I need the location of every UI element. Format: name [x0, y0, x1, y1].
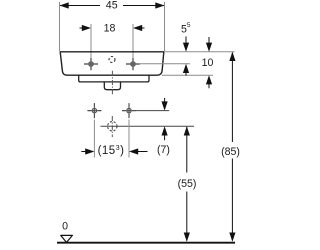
drain fitting under basin	[104, 82, 120, 90]
dimension (7) lower arrow	[162, 126, 168, 140]
dimension (55) bottom arrow	[184, 233, 190, 242]
tap hole right	[126, 58, 140, 70]
dimension 45 line	[60, 5, 165, 7]
dimension (15/3) left arrow	[81, 148, 94, 154]
svg-text:10: 10	[202, 57, 214, 69]
extension line left of 45	[59, 2, 61, 51]
reference line tap level extended right	[139, 63, 190, 65]
dimension (7) upper arrow	[162, 98, 168, 111]
dimension 10 lower arrow	[206, 75, 212, 88]
dimension 18 right arrow	[133, 25, 145, 31]
extension line right fixing hole down	[128, 120, 130, 158]
dimension 45 right arrow	[155, 2, 164, 8]
washbasin apron (lower tier)	[79, 75, 149, 82]
dimension 10 upper arrow	[206, 37, 212, 52]
dimension (85) bottom arrow	[229, 233, 235, 242]
dimension 45 left arrow	[60, 2, 69, 8]
dimension (55) top arrow	[184, 126, 190, 135]
drain hole (dashed circle)	[108, 122, 117, 131]
floor line	[57, 242, 235, 244]
extension line right of 45	[164, 2, 166, 51]
drain hole vertical centerline	[111, 116, 113, 137]
drain centerline of basin	[111, 71, 113, 95]
svg-text:(7): (7)	[157, 144, 170, 156]
overflow hole (dashed circle)	[109, 57, 115, 63]
svg-text:(153): (153)	[98, 145, 125, 157]
datum triangle symbol	[61, 235, 73, 242]
extension line left fixing hole down	[93, 120, 95, 158]
reference line basin bottom extended right	[162, 74, 213, 76]
extension line left tap	[90, 24, 92, 58]
dimension 5/5 lower arrow	[183, 64, 189, 76]
reference line basin top extended right	[164, 51, 235, 53]
dimension 18 left arrow	[80, 25, 92, 31]
dimension (85) line	[231, 53, 233, 241]
dimension (55) line	[186, 127, 188, 241]
drain hole horizontal centerline / reference line	[101, 125, 195, 127]
fixing hole left	[87, 103, 101, 118]
svg-text:18: 18	[104, 23, 116, 35]
extension line right tap	[132, 24, 134, 58]
svg-text:45: 45	[106, 0, 118, 12]
fixing hole right	[122, 103, 136, 118]
svg-text:(85): (85)	[221, 146, 240, 158]
dimension 5/5 upper arrow	[183, 37, 189, 52]
svg-text:(55): (55)	[178, 178, 197, 190]
svg-text:0: 0	[62, 221, 68, 233]
tap hole left	[84, 58, 98, 70]
washbasin body outline	[60, 52, 164, 75]
dimension (85) top arrow	[229, 52, 235, 61]
dimension (15/3) right arrow	[129, 148, 148, 154]
reference line fixing holes extended right	[136, 110, 169, 112]
